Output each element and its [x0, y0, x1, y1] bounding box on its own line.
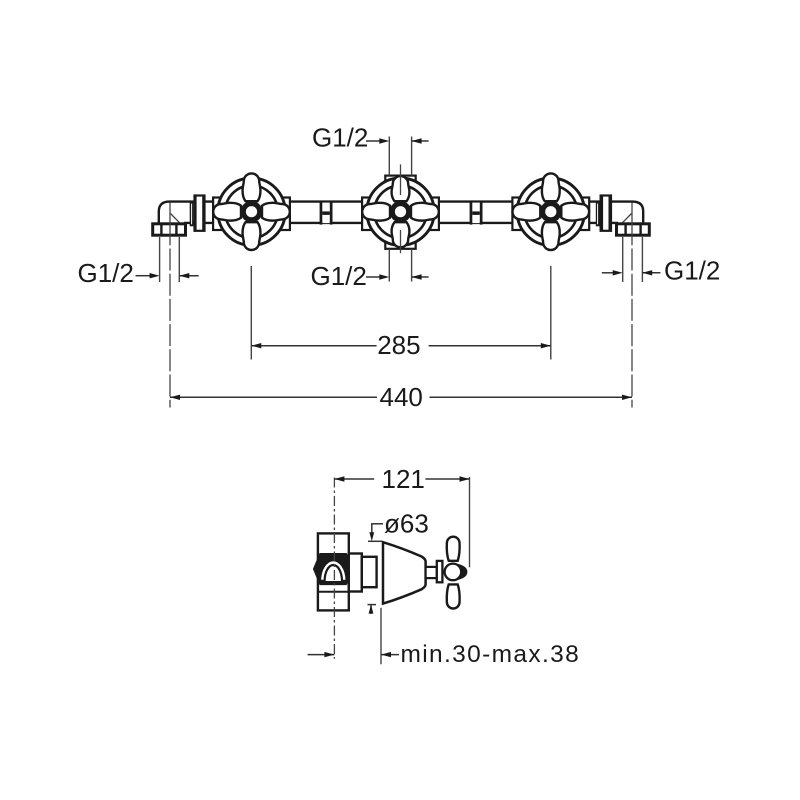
- svg-text:121: 121: [382, 464, 425, 494]
- svg-text:440: 440: [380, 382, 423, 412]
- svg-text:285: 285: [377, 330, 420, 360]
- svg-text:G1/2: G1/2: [78, 258, 134, 288]
- svg-text:min.30-max.38: min.30-max.38: [401, 641, 581, 668]
- svg-text:G1/2: G1/2: [311, 261, 367, 291]
- svg-text:G1/2: G1/2: [664, 256, 720, 286]
- svg-text:ø63: ø63: [384, 509, 429, 539]
- svg-text:G1/2: G1/2: [312, 123, 368, 153]
